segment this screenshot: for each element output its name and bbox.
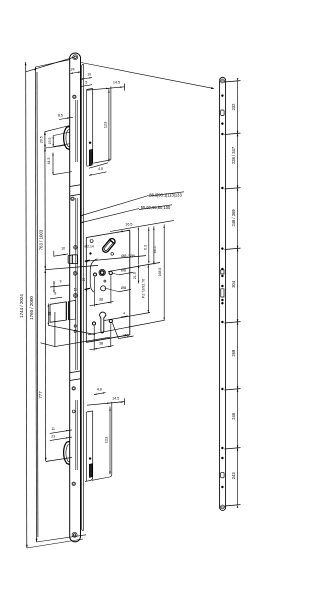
rail hole — [221, 187, 223, 189]
rail hole — [221, 447, 223, 449]
svg-text:35: 35 — [48, 312, 52, 316]
follower nut — [99, 269, 105, 275]
aux case bottom lower — [85, 478, 93, 482]
svg-text:4.0: 4.0 — [97, 388, 102, 392]
ext follower axis — [45, 265, 98, 269]
svg-text:123: 123 — [102, 122, 107, 129]
svg-text:1744 / 2024: 1744 / 2024 — [19, 294, 24, 318]
rail hole — [221, 268, 223, 270]
strike rail left edge — [219, 80, 221, 507]
screw hole — [72, 482, 75, 485]
ext line — [53, 132, 70, 136]
dim line 763/1003 + 777 — [44, 132, 47, 462]
follower axis line — [108, 263, 160, 272]
rail latch cutout — [221, 270, 224, 274]
dim 123 lower — [109, 407, 111, 475]
strike rail bottom cap — [220, 508, 226, 511]
side strip top — [82, 64, 84, 66]
rail hole — [221, 388, 223, 390]
leader arrowhead — [211, 87, 215, 89]
case screw — [90, 240, 93, 243]
hook pivot dot lower — [89, 458, 91, 460]
hook inside case lower — [89, 464, 92, 478]
dim 38 upper — [90, 302, 114, 306]
svg-text:246: 246 — [231, 412, 236, 420]
svg-text:21.5: 21.5 — [133, 272, 137, 279]
dim 10 — [81, 78, 93, 80]
extension line case — [110, 87, 112, 160]
ext line — [110, 276, 112, 304]
svg-text:Ø8: Ø8 — [121, 285, 126, 290]
rail hole — [221, 285, 223, 287]
aux case left edge — [86, 90, 88, 166]
dim 11 — [50, 430, 72, 434]
screw hole — [73, 271, 77, 275]
aux case top lower — [87, 411, 93, 412]
svg-text:Ø2.14: Ø2.14 — [85, 244, 94, 248]
rail dim connector — [225, 133, 241, 134]
svg-text:44.5: 44.5 — [47, 158, 51, 165]
dim line 1744/2024 — [26, 62, 27, 548]
main case top edge — [86, 230, 130, 237]
small hole — [104, 280, 106, 282]
svg-text:123: 123 — [104, 437, 109, 444]
dim 24 — [70, 72, 80, 74]
dim 123 — [108, 89, 110, 162]
svg-text:66.5: 66.5 — [153, 246, 157, 253]
rail hole — [221, 321, 223, 323]
dim 9 — [53, 281, 55, 292]
hook pivot dot — [89, 142, 91, 144]
case bottom ext — [93, 160, 111, 163]
rail dim connector — [225, 188, 241, 189]
strike rail top cap — [220, 77, 226, 80]
deadbolt edge line — [65, 302, 67, 320]
ext 21.5 up — [138, 229, 140, 264]
dim 10 tick — [53, 251, 55, 257]
rail hole — [221, 248, 223, 250]
latch bolt — [68, 255, 77, 264]
svg-text:1760 / 2000: 1760 / 2000 — [29, 296, 34, 320]
ext hook top — [45, 125, 70, 131]
svg-text:9: 9 — [60, 279, 62, 283]
cam pivot hole — [111, 253, 114, 256]
dim 23 — [50, 437, 72, 441]
dim 66.5 — [153, 226, 155, 264]
svg-text:Ø6: Ø6 — [121, 268, 126, 273]
rail slot upper — [221, 110, 224, 116]
dim 14.5 lower baseline — [87, 402, 125, 406]
svg-text:11: 11 — [51, 427, 55, 431]
dia8 hole — [101, 286, 106, 291]
rail dim connector — [225, 505, 241, 506]
rail hole — [221, 123, 223, 125]
top extension line to plate — [26, 57, 74, 72]
faceplate left edge — [69, 57, 71, 537]
latch face edge — [71, 255, 73, 264]
ext hook bottom — [45, 145, 65, 148]
hole — [74, 330, 76, 332]
ext line — [94, 277, 96, 307]
svg-text:5: 5 — [85, 81, 87, 85]
rail hole — [221, 275, 223, 277]
deadbolt front face — [50, 302, 66, 323]
rail dim chain line — [237, 81, 239, 505]
main case bottom edge — [86, 335, 130, 343]
side strip outer edge — [82, 64, 84, 530]
aux case left edge lower — [86, 412, 88, 481]
aux case right edge — [92, 88, 94, 162]
hole left of follower — [94, 273, 97, 276]
mechanism arc — [90, 259, 97, 292]
top extension line 2 — [36, 60, 70, 67]
dim 4.0 — [89, 172, 107, 176]
hook bolt upper — [64, 127, 70, 150]
aux case bottom corner — [87, 162, 93, 166]
dim 8 line — [50, 297, 62, 299]
dim line 1760/2000 — [35, 67, 36, 542]
ext line vert — [54, 312, 56, 347]
screw hole — [73, 95, 76, 98]
strike rail right edge — [225, 80, 227, 507]
hole right of follower — [109, 271, 112, 274]
rail top hole — [221, 79, 225, 83]
faceplate bottom cap — [70, 537, 81, 542]
svg-text:38: 38 — [99, 298, 103, 302]
rail hole — [221, 95, 223, 97]
dim 40 lower aux — [94, 393, 106, 395]
case ext corner — [92, 475, 112, 481]
hook bolt lower — [64, 442, 70, 465]
svg-text:10: 10 — [61, 247, 65, 251]
leader to strike rail — [81, 63, 213, 89]
aux case right lower — [92, 411, 94, 478]
svg-text:38: 38 — [99, 342, 103, 346]
svg-text:6.3: 6.3 — [144, 245, 148, 250]
ext line v-left — [41, 343, 55, 347]
svg-text:14.5: 14.5 — [112, 396, 119, 400]
svg-text:232: 232 — [231, 103, 236, 111]
plate groove main — [75, 198, 77, 370]
svg-text:304: 304 — [231, 280, 236, 288]
screw hole — [74, 246, 78, 250]
dim 10 line — [54, 254, 68, 256]
rail dim connector — [225, 81, 241, 82]
faceplate right edge — [80, 57, 82, 537]
side strip inner edge — [81, 67, 83, 530]
deadbolt in slot — [69, 300, 76, 319]
small dot — [90, 253, 92, 255]
svg-text:88.9|98.1|113|133: 88.9|98.1|113|133 — [149, 192, 182, 197]
leader to hole — [112, 323, 118, 339]
dim 21.5 — [138, 264, 140, 283]
leader 55-100 — [81, 209, 140, 223]
rail hole — [221, 302, 223, 304]
cylinder bottom ref line — [88, 320, 165, 335]
rail slot lower — [221, 472, 224, 478]
leader 88.9 — [81, 196, 149, 216]
ext lower hook — [46, 457, 72, 461]
screw hole main top — [71, 197, 74, 200]
svg-text:24: 24 — [71, 68, 75, 72]
faceplate top cap — [70, 53, 81, 57]
rail dim connector — [225, 248, 241, 249]
svg-text:777: 777 — [38, 391, 43, 399]
hole left of cylinder — [92, 322, 95, 325]
plate slot upper aux — [75, 100, 77, 162]
dim 38 lower — [90, 346, 114, 350]
rail bolt cutout — [221, 289, 224, 297]
screw hole aux low — [72, 387, 75, 390]
ext line — [53, 172, 72, 175]
svg-text:248 / 369: 248 / 369 — [231, 209, 236, 227]
section break upper — [70, 185, 81, 187]
svg-text:168.5: 168.5 — [158, 268, 162, 277]
dim 5 — [81, 85, 93, 87]
svg-text:269: 269 — [231, 349, 236, 357]
arrow dash — [85, 288, 90, 289]
bottom extension line 2 — [37, 535, 87, 542]
hole right of cylinder — [109, 319, 112, 322]
svg-text:23: 23 — [51, 434, 55, 438]
ext line v-right — [55, 337, 110, 346]
dim 14.5 baseline — [87, 87, 125, 90]
svg-text:243: 243 — [231, 472, 236, 480]
svg-text:4.0: 4.0 — [98, 167, 103, 171]
bottom extension line — [27, 539, 83, 548]
dim 8.5 — [59, 117, 73, 119]
dim 44.5 — [52, 153, 54, 175]
plate slot lower aux — [75, 400, 77, 470]
ext line — [110, 324, 112, 348]
svg-text:25: 25 — [82, 278, 86, 282]
aux case top — [87, 88, 93, 89]
euro cylinder cutout — [100, 312, 106, 333]
svg-text:763 / 1003: 763 / 1003 — [38, 229, 43, 250]
rotated cam lever — [101, 240, 114, 254]
cylinder axis line — [104, 313, 150, 321]
svg-text:29.5: 29.5 — [39, 136, 43, 143]
dim line under case — [89, 163, 108, 168]
tick 14.5 right — [124, 84, 126, 91]
svg-text:10: 10 — [87, 72, 91, 76]
svg-text:PZ 72/92.76: PZ 72/92.76 — [142, 279, 146, 298]
svg-text:228 / 347: 228 / 347 — [231, 146, 236, 164]
section break lower — [70, 371, 81, 373]
rail hole — [221, 486, 223, 488]
rail dim connector — [225, 322, 241, 323]
svg-text:8.5: 8.5 — [58, 114, 63, 118]
hole — [74, 325, 76, 327]
hole — [72, 410, 75, 413]
dim PZ 72/92 — [147, 264, 149, 313]
svg-text:19.5: 19.5 — [48, 138, 52, 145]
svg-text:16.5: 16.5 — [125, 223, 132, 227]
rail bottom hole — [220, 505, 224, 509]
svg-text:4: 4 — [123, 312, 125, 316]
ext line — [93, 326, 95, 351]
dim 19.5 — [52, 136, 54, 147]
svg-text:14.5: 14.5 — [113, 80, 120, 84]
svg-text:8: 8 — [55, 292, 57, 296]
rail dim connector — [225, 448, 241, 449]
bottom screw hole — [72, 532, 77, 537]
ext line — [53, 144, 70, 147]
ext line low — [48, 325, 95, 334]
dim 168.5 — [163, 224, 165, 320]
dim 6.3 — [148, 227, 150, 263]
main case right edge — [129, 230, 131, 335]
tick 14.5 lower right — [124, 398, 126, 405]
rail hole — [221, 299, 223, 301]
top screw hole — [73, 55, 78, 60]
main case left edge — [85, 238, 87, 343]
screw hole — [74, 294, 78, 298]
ext line case lower — [111, 402, 113, 475]
dim 35 — [47, 304, 49, 326]
svg-text:15: 15 — [73, 288, 77, 292]
rail hole — [221, 457, 223, 459]
hook inside case — [89, 149, 92, 165]
rail dim connector — [225, 389, 241, 390]
dim 9 line — [50, 285, 70, 287]
side strip bottom — [82, 529, 84, 531]
rail hole — [221, 133, 223, 135]
dim baseline — [110, 220, 174, 231]
extension line — [36, 72, 39, 537]
